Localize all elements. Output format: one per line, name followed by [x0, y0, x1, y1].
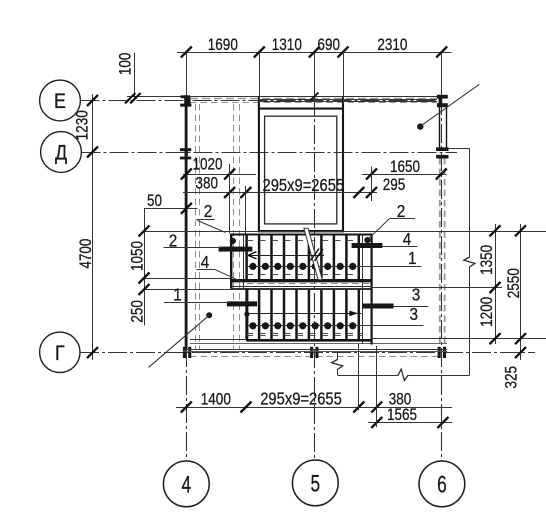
upper flight bottom lines — [231, 286, 373, 288]
tick top at axis 6 — [436, 47, 447, 58]
lower flight left edge — [246, 289, 248, 342]
anchor dot bar2 — [230, 238, 236, 244]
column marker at E-6 corner — [437, 95, 448, 99]
svg-text:4700: 4700 — [77, 239, 96, 269]
column marker at E-4 — [181, 95, 191, 98]
extension line for dim 100 — [134, 53, 136, 101]
axis D line — [82, 152, 458, 154]
lower flight right thick edge — [371, 289, 373, 345]
shaft top edge — [258, 108, 344, 110]
upper flight top edge — [231, 234, 373, 236]
lower flight treads — [247, 290, 359, 340]
column marker at D-4 — [180, 148, 191, 151]
shaft bottom edge — [258, 230, 344, 232]
rebar line 1 with anchor dots (upper) — [248, 266, 422, 268]
leader with dot top-right — [417, 123, 423, 129]
right dimension line 2550/325 — [520, 224, 522, 360]
dim line y192.5 — [183, 192, 377, 194]
svg-text:1: 1 — [408, 248, 417, 268]
elbow line at axis D right — [449, 148, 470, 150]
svg-text:295: 295 — [383, 176, 406, 195]
tick y278 — [139, 273, 150, 284]
tick 2655 right — [353, 187, 364, 198]
extension line shaft right top — [343, 52, 345, 104]
svg-text:1690: 1690 — [208, 36, 238, 55]
axis G line — [80, 352, 535, 354]
lower flight right thin edge — [362, 289, 364, 344]
bottom dimension line 2 — [368, 422, 452, 424]
dim line y174 left part — [183, 174, 256, 176]
extension line y338.7 right — [373, 338, 546, 340]
boundary line bottom-left vertical with break — [337, 353, 339, 360]
boundary line right vertical with break — [469, 149, 471, 258]
right wall solid segment — [439, 107, 441, 148]
tick at G — [87, 347, 98, 358]
bar 3 plate right — [362, 304, 393, 309]
extension line x376.8 bottom — [376, 346, 378, 427]
dim 50 tick — [181, 203, 192, 214]
lower flight top edge — [247, 289, 373, 291]
axis circle E — [40, 80, 81, 121]
axis circle G — [40, 332, 80, 372]
bar 4 plate right — [352, 243, 383, 248]
column marker at G-5 — [310, 347, 313, 358]
svg-text:Е: Е — [54, 90, 66, 114]
tick 295 right — [366, 187, 377, 198]
tick top at shaft right — [338, 47, 349, 58]
tick 380 left — [224, 187, 235, 198]
hidden right wall dashed pair — [439, 158, 441, 346]
left dimension line — [92, 94, 94, 360]
dim 50 line — [144, 208, 198, 210]
upper flight treads — [247, 236, 359, 280]
svg-text:2: 2 — [204, 201, 213, 221]
lower walking line start dot — [244, 312, 249, 317]
axis E line — [81, 100, 438, 102]
column marker at D-6 — [436, 147, 448, 151]
bar 2 plate left — [219, 247, 253, 252]
tick top at shaft left — [254, 47, 265, 58]
tick y289.5 — [139, 284, 150, 295]
tick 1650 left — [366, 169, 377, 180]
svg-text:3: 3 — [412, 284, 421, 304]
svg-text:325: 325 — [502, 366, 521, 389]
bottom dimension line 1 — [176, 407, 452, 409]
column marker at G-6 — [438, 347, 441, 358]
extension line x371.3 — [371, 167, 373, 202]
axis circle 6 — [419, 461, 465, 507]
shaft left wall edge — [258, 97, 260, 232]
tick 1020 right — [224, 169, 235, 180]
tick top at axis 4 — [181, 47, 192, 58]
extension line y289.5 — [144, 289, 247, 291]
landing edge left of lower flight — [190, 339, 247, 341]
svg-text:2550: 2550 — [505, 268, 524, 298]
svg-text:1230: 1230 — [73, 110, 92, 140]
svg-text:1020: 1020 — [192, 155, 222, 174]
bottom landing edge line — [190, 343, 447, 345]
rebar line 3 with anchor dots (lower) — [248, 325, 424, 327]
dim line y174 right part — [362, 174, 447, 176]
lower flight bottom edge — [247, 339, 373, 342]
extension line y287.5 right — [373, 287, 503, 289]
dim 100 double slash — [125, 93, 135, 103]
axis 5 line — [314, 52, 316, 97]
svg-text:6: 6 — [437, 472, 447, 498]
svg-text:Д: Д — [55, 141, 67, 165]
tick at axis5 wall crossing — [310, 93, 318, 101]
svg-text:50: 50 — [147, 192, 162, 211]
bottom wall face lines — [183, 349, 447, 351]
upper flight left edge — [230, 234, 232, 289]
svg-text:250: 250 — [128, 300, 147, 323]
left wall — [185, 96, 188, 350]
shaft inner rectangle — [265, 116, 337, 224]
upper flight right thin edge — [362, 234, 364, 289]
walking line white band — [304, 228, 322, 279]
svg-text:380: 380 — [195, 174, 218, 193]
anchor dot bar4 — [364, 237, 370, 243]
tick 1020 left — [181, 169, 192, 180]
hidden wall edge dashed pair left-inner — [195, 104, 197, 350]
svg-text:1565: 1565 — [387, 406, 417, 425]
lower flight tread dashes row1 — [247, 333, 362, 335]
svg-text:Г: Г — [55, 341, 65, 365]
upper flight right thick edge — [371, 234, 373, 289]
extension line y278 — [144, 278, 231, 280]
extension line shaft left top — [259, 52, 261, 104]
top wall hidden dashed lines — [190, 98, 437, 100]
axis 4 line — [186, 52, 188, 96]
walking line horizontal with arrow — [248, 255, 324, 257]
right dimension line 1350/1200 — [495, 224, 497, 344]
tick y231 — [139, 226, 150, 237]
top dimension line — [177, 52, 452, 54]
svg-text:1310: 1310 — [272, 36, 302, 55]
top wall outer face — [127, 96, 447, 98]
top wall inner face lines over shaft — [259, 99, 437, 101]
bottom wall hidden dashed line — [190, 356, 440, 358]
upper flight tread dashes row1 — [247, 240, 359, 242]
tick 1650 right — [436, 169, 447, 180]
svg-text:690: 690 — [317, 36, 340, 55]
left inner dimension line — [144, 208, 146, 325]
svg-text:4: 4 — [181, 472, 191, 498]
extension line x245.8 — [245, 186, 247, 234]
svg-text:2310: 2310 — [377, 36, 407, 55]
boundary line bottom horizontal with break — [337, 375, 398, 377]
svg-text:295x9=2655: 295x9=2655 — [263, 176, 345, 196]
axis circle D — [41, 132, 82, 173]
svg-text:100: 100 — [116, 53, 135, 76]
tick at E — [87, 95, 98, 106]
svg-text:1: 1 — [173, 284, 182, 304]
tick 380 right — [240, 187, 251, 198]
svg-text:5: 5 — [310, 471, 320, 497]
tick top at axis 5 — [309, 47, 320, 58]
axis circle 4 — [163, 461, 209, 507]
svg-text:1650: 1650 — [390, 158, 420, 177]
svg-text:1050: 1050 — [128, 241, 147, 271]
walking line fletching slashes — [311, 249, 320, 261]
upper flight inner thin line — [243, 235, 245, 289]
upper flight bottom bar — [231, 279, 373, 282]
svg-text:1400: 1400 — [201, 390, 231, 409]
lower flight tread dashes row2 — [247, 335, 362, 337]
anchor dot bar1 leader — [206, 312, 212, 318]
svg-text:295x9=2655: 295x9=2655 — [260, 389, 342, 409]
extension line y231 — [144, 231, 546, 233]
extension line x358.8 bottom — [358, 344, 360, 411]
axis circle 5 — [292, 460, 338, 506]
grey dash under upper flight bar — [247, 283, 372, 285]
hidden edge dashed pair at stair left — [233, 104, 235, 350]
shaft right wall edge — [342, 97, 344, 232]
upper flight tread dashes row2 — [247, 274, 359, 276]
extension line x229.6 — [229, 164, 231, 234]
tick at D — [87, 147, 98, 158]
column marker at G-4 — [183, 347, 186, 358]
svg-text:1200: 1200 — [478, 297, 497, 327]
svg-text:1350: 1350 — [478, 245, 497, 275]
lower walking line with arrow — [249, 313, 353, 315]
svg-text:3: 3 — [410, 304, 419, 324]
axis 6 line — [441, 52, 443, 96]
bar 1 plate left — [227, 301, 257, 306]
